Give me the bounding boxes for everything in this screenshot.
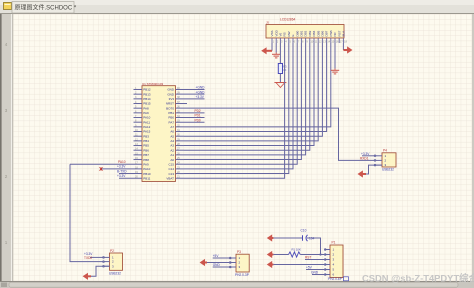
MCU U1 left pin 15 (134, 154, 143, 156)
MCU U1 right pin 40 (176, 89, 205, 91)
svg-text:PA9: PA9 (143, 111, 149, 115)
small blue box after P1 label (344, 277, 349, 281)
svg-text:+3.3V: +3.3V (117, 165, 126, 169)
power port arrow left (C10 VCC) (267, 234, 272, 241)
connector P2 pin 3 (103, 265, 110, 267)
wire LCD pin14 staircase to MCU (184, 43, 327, 132)
connector J5 LCD header box (266, 25, 344, 39)
svg-text:C10: C10 (301, 229, 307, 233)
wire P3 pin2 to power arrow (207, 262, 230, 264)
connector P2 pin 1 (103, 256, 110, 258)
wire capacitor C10 to junction (307, 238, 321, 255)
connector P4 pin 1 (375, 155, 383, 157)
LCD pin 8 stub (300, 38, 302, 43)
MCU U1 left pin 9 (134, 126, 143, 128)
svg-text:NRST: NRST (166, 102, 174, 106)
svg-text:原理图文件.SCHDOC *: 原理图文件.SCHDOC * (15, 4, 77, 12)
LCD pin 5 stub (288, 38, 290, 43)
svg-text:PB14: PB14 (143, 97, 151, 101)
MCU U1 left pin 14 (134, 149, 143, 151)
MCU U1 right pin 31 (176, 131, 185, 133)
LCD pin 4 stub (284, 38, 286, 43)
wire U1 PA10 to connector P2 pin2 (70, 164, 103, 261)
ground arrow under R3 (276, 83, 285, 88)
wire P1 pin5 (306, 269, 325, 271)
MCU U1 right pin 24 (176, 163, 185, 165)
LCD pin 15 stub (330, 38, 332, 43)
wire resistor R3 to ground (279, 74, 281, 83)
svg-text:B-TXD: B-TXD (117, 169, 127, 173)
MCU U1 right pin 35 (176, 112, 205, 114)
svg-text:PB13: PB13 (143, 92, 151, 96)
MCU U1 right pin 30 (176, 135, 185, 137)
svg-text:PB5: PB5 (143, 144, 149, 148)
wire P3 pin1 (213, 257, 230, 259)
LCD pin 3 stub (279, 38, 281, 43)
wire LCD pin8 staircase to MCU (184, 43, 301, 160)
LCD pin 10 stub (309, 38, 311, 43)
svg-text:C15: C15 (168, 162, 174, 166)
LCD pin 12 stub (317, 38, 319, 43)
wire LCD pin16 down (334, 43, 336, 69)
wire LCD pin15 staircase to MCU (184, 43, 331, 127)
svg-text:P3: P3 (237, 250, 241, 254)
wire LCD pin4 staircase to MCU (184, 43, 285, 178)
svg-text:A3: A3 (170, 144, 174, 148)
svg-text:PA10: PA10 (143, 116, 150, 120)
MCU U1 left pin 16 (134, 159, 143, 161)
wire LCD pin10 staircase to MCU (184, 43, 310, 150)
svg-text:A5: A5 (170, 134, 174, 138)
connector P1 pin 4 (325, 264, 330, 266)
connector P2 pin 2 (103, 261, 110, 263)
wire LCD pin18 to VCC arrow right (342, 43, 344, 50)
svg-text:J5: J5 (266, 20, 269, 24)
svg-text:PA12: PA12 (143, 125, 150, 129)
power port arrow left (P4) (358, 170, 363, 177)
svg-text:3V3: 3V3 (169, 97, 175, 101)
svg-text:R1 10K: R1 10K (292, 248, 301, 252)
MCU U1 left pin 19 (119, 173, 142, 175)
MCU U1 left pin 11 (134, 135, 143, 137)
connector P3 pin 2 (230, 262, 236, 264)
svg-text:PB12: PB12 (143, 88, 151, 92)
svg-text:P4: P4 (383, 149, 387, 153)
svg-text:PD1: PD1 (195, 114, 201, 118)
svg-text:+GND: +GND (196, 90, 206, 94)
MCU U1 right pin 36 (176, 108, 375, 160)
svg-text:2: 2 (5, 174, 8, 179)
svg-text:PD2: PD2 (195, 109, 201, 113)
svg-text:PB7: PB7 (143, 153, 149, 157)
wire P2 pin1 stub (90, 256, 103, 258)
wire LCD pin11 staircase to MCU (184, 43, 314, 146)
svg-text:PB1: PB1 (168, 111, 174, 115)
svg-text:LCD12864: LCD12864 (280, 17, 295, 21)
wire LCD pin6 staircase to MCU (184, 43, 293, 169)
svg-text:PH2.0-3P: PH2.0-3P (235, 273, 249, 277)
svg-text:GND: GND (167, 92, 175, 96)
wire resistor R1 to P1 pin2 (300, 254, 324, 256)
MCU U1 right pin 22 (176, 173, 185, 175)
MCU U1 left pin 13 (134, 145, 143, 147)
wire LCD pin5 staircase to MCU (184, 43, 289, 174)
MCU U1 right pin 32 (176, 126, 185, 128)
connector P1 pin 6 (325, 274, 330, 276)
MCU U1 right pin 25 (176, 159, 185, 161)
power port arrow left (P3) (200, 259, 205, 266)
op: MCU U1 box (142, 86, 176, 182)
tab: document icon (4, 3, 12, 10)
svg-text:+5V: +5V (213, 254, 220, 258)
power port arrow left (P2) (83, 273, 88, 280)
svg-text:A4: A4 (170, 139, 174, 143)
svg-text:A6: A6 (170, 130, 174, 134)
svg-text:PA8: PA8 (143, 106, 149, 110)
junction dot (319, 253, 321, 255)
svg-text:PA15: PA15 (143, 130, 150, 134)
svg-text:TXD2: TXD2 (84, 256, 92, 260)
LCD pin 6 stub (292, 38, 294, 43)
svg-text:PH2.0-6P: PH2.0-6P (328, 277, 342, 281)
wire LCD pin2 down (275, 43, 277, 53)
active tab (12, 2, 74, 14)
svg-text:USB232: USB232 (109, 271, 121, 275)
MCU U1 left pin 17 (70, 163, 142, 165)
svg-text:PB0: PB0 (168, 116, 174, 120)
svg-text:PB15: PB15 (143, 102, 151, 106)
tab bar (0, 0, 474, 13)
MCU U1 left pin 7 (134, 117, 143, 119)
svg-text:PA7: PA7 (169, 120, 175, 124)
svg-text:C13: C13 (168, 172, 174, 176)
connector P4 pin 3 (375, 164, 383, 166)
svg-text:RXD1: RXD1 (360, 156, 369, 160)
svg-text:P1: P1 (332, 240, 336, 244)
connector P1 pin 1 (325, 249, 330, 251)
svg-text:+3.3V: +3.3V (196, 95, 205, 99)
wire LCD pin3 down to resistor R3 (279, 43, 281, 64)
svg-text:PA10: PA10 (118, 160, 126, 164)
svg-text:A1: A1 (170, 153, 174, 157)
LCD pin 14 stub (326, 38, 328, 43)
MCU U1 right pin 34 (176, 117, 205, 119)
MCU U1 left pin 4 (134, 103, 143, 105)
power port VCC arrow left (top) (261, 47, 266, 54)
MCU U1 left pin 2 (134, 93, 143, 95)
LCD pin 11 stub (313, 38, 315, 43)
right edge scrollbar sliver (472, 14, 474, 281)
connector P4 box (382, 153, 396, 167)
MCU U1 right pin 26 (176, 154, 185, 156)
svg-text:+3.3V: +3.3V (117, 174, 126, 178)
power port arrow left (P1 pin4) (267, 261, 272, 268)
wire VCC to resistor R1 (273, 254, 288, 256)
wire P3 pin3 (213, 266, 230, 268)
power port VCC arrow right (top) (347, 46, 352, 53)
left margin strip (0, 14, 13, 281)
svg-text:GND: GND (213, 263, 221, 267)
LCD pin 2 stub (275, 38, 277, 43)
connector P1 pin 2 (325, 254, 330, 256)
connector P3 box (236, 254, 249, 272)
connector P1 pin 5 (325, 269, 330, 271)
resistor R1 zigzag (289, 252, 301, 257)
bottom scrollbar (0, 281, 474, 288)
MCU U1 right pin 27 (176, 149, 185, 151)
svg-text:A2: A2 (170, 148, 174, 152)
svg-text:PB3: PB3 (143, 134, 149, 138)
svg-text:BOT0: BOT0 (166, 106, 174, 110)
MCU U1 left pin 20 (119, 177, 142, 179)
connector P3 pin 3 (230, 266, 236, 268)
wire P4 pin1 stub (362, 155, 375, 157)
wire P2 pin3 to power arrow (91, 266, 110, 276)
MCU U1 right pin 29 (176, 140, 185, 142)
svg-text:4: 4 (5, 42, 8, 47)
LCD pin 7 stub (296, 38, 298, 43)
wire arrow to P1 pin4 (273, 264, 324, 266)
connector P4 pin 2 (375, 159, 383, 161)
MCU U1 right pin 38 (176, 98, 205, 100)
svg-text:3: 3 (5, 108, 8, 113)
MCU U1 right pin 28 (176, 145, 185, 147)
wire P4 pin3 to gnd arrow (366, 165, 382, 174)
capacitor C10 (302, 235, 304, 241)
ground GND bars under LCD pin16 (334, 69, 336, 71)
MCU U1 right pin 37 (176, 103, 188, 105)
connector P1 box (330, 245, 343, 278)
LCD pin 1 stub (271, 38, 273, 43)
svg-text:1: 1 (5, 240, 8, 245)
svg-text:PD0: PD0 (195, 118, 201, 122)
wire LCD pin12 staircase to MCU (184, 43, 318, 141)
svg-text:GND: GND (311, 271, 319, 275)
wire LCD pin13 staircase to MCU (184, 43, 322, 136)
MCU U1 left pin 18 (101, 168, 142, 170)
svg-text:BLA: BLA (342, 31, 346, 37)
connector P3 pin 1 (230, 257, 236, 259)
MCU U1 left pin 1 (134, 89, 143, 91)
svg-text:PB11: PB11 (143, 176, 150, 180)
ground GND bars under LCD pin2 (275, 53, 277, 55)
LCD pin 17 stub (338, 38, 340, 43)
no-ERC cross on U1 left row18 (100, 167, 103, 171)
LCD pin 9 stub (305, 38, 307, 43)
MCU U1 left pin 3 (134, 98, 143, 100)
LCD pin 18 stub (342, 38, 344, 43)
power port arrow left (R1) (267, 251, 272, 258)
svg-text:PB6: PB6 (143, 148, 149, 152)
svg-text:U1 STM32F103: U1 STM32F103 (142, 82, 164, 86)
LCD pin 16 stub (334, 38, 336, 43)
MCU U1 right pin 39 (176, 93, 205, 95)
wire LCD pin7 staircase to MCU (184, 43, 297, 164)
MCU U1 left pin 10 (134, 131, 143, 133)
MCU U1 right pin 21 (176, 177, 185, 179)
svg-text:P2: P2 (110, 249, 114, 253)
resistor R3 (blue rect) (278, 64, 282, 74)
svg-text:VBAT: VBAT (166, 176, 174, 180)
MCU U1 left pin 6 (134, 112, 143, 114)
svg-text:PA10: PA10 (143, 167, 150, 171)
wire LCD pin9 staircase to MCU (184, 43, 306, 155)
wire VCC to capacitor C10 (273, 237, 302, 239)
svg-text:RST: RST (305, 256, 311, 260)
svg-text:PB10: PB10 (143, 172, 151, 176)
svg-text:A7: A7 (170, 125, 174, 129)
svg-text:PB4: PB4 (143, 139, 149, 143)
MCU U1 left pin 8 (134, 121, 143, 123)
MCU U1 left pin 12 (134, 140, 143, 142)
connector P1 pin 3 (325, 259, 330, 261)
wire LCD pin1 to VCC arrow (271, 43, 273, 51)
svg-text:PA11: PA11 (143, 120, 150, 124)
wire P1 pin6 (312, 274, 325, 276)
connector P2 box (110, 253, 123, 270)
MCU U1 right pin 23 (176, 168, 185, 170)
svg-text:GND: GND (167, 88, 175, 92)
svg-text:PB8: PB8 (143, 158, 149, 162)
svg-text:+3.3V: +3.3V (361, 152, 370, 156)
svg-text:PA9: PA9 (143, 162, 149, 166)
svg-text:A0: A0 (170, 158, 174, 162)
svg-text:+5V: +5V (306, 266, 313, 270)
svg-text:C14: C14 (168, 167, 174, 171)
wire P1 pin3 (305, 259, 325, 261)
svg-text:USB232: USB232 (382, 168, 394, 172)
svg-text:CSDN @sb-Z-T4PDYT综合: CSDN @sb-Z-T4PDYT综合 (362, 273, 474, 284)
svg-text:+GND: +GND (196, 86, 206, 90)
MCU U1 right pin 33 (176, 121, 205, 123)
LCD pin 13 stub (321, 38, 323, 43)
MCU U1 left pin 5 (134, 107, 143, 109)
